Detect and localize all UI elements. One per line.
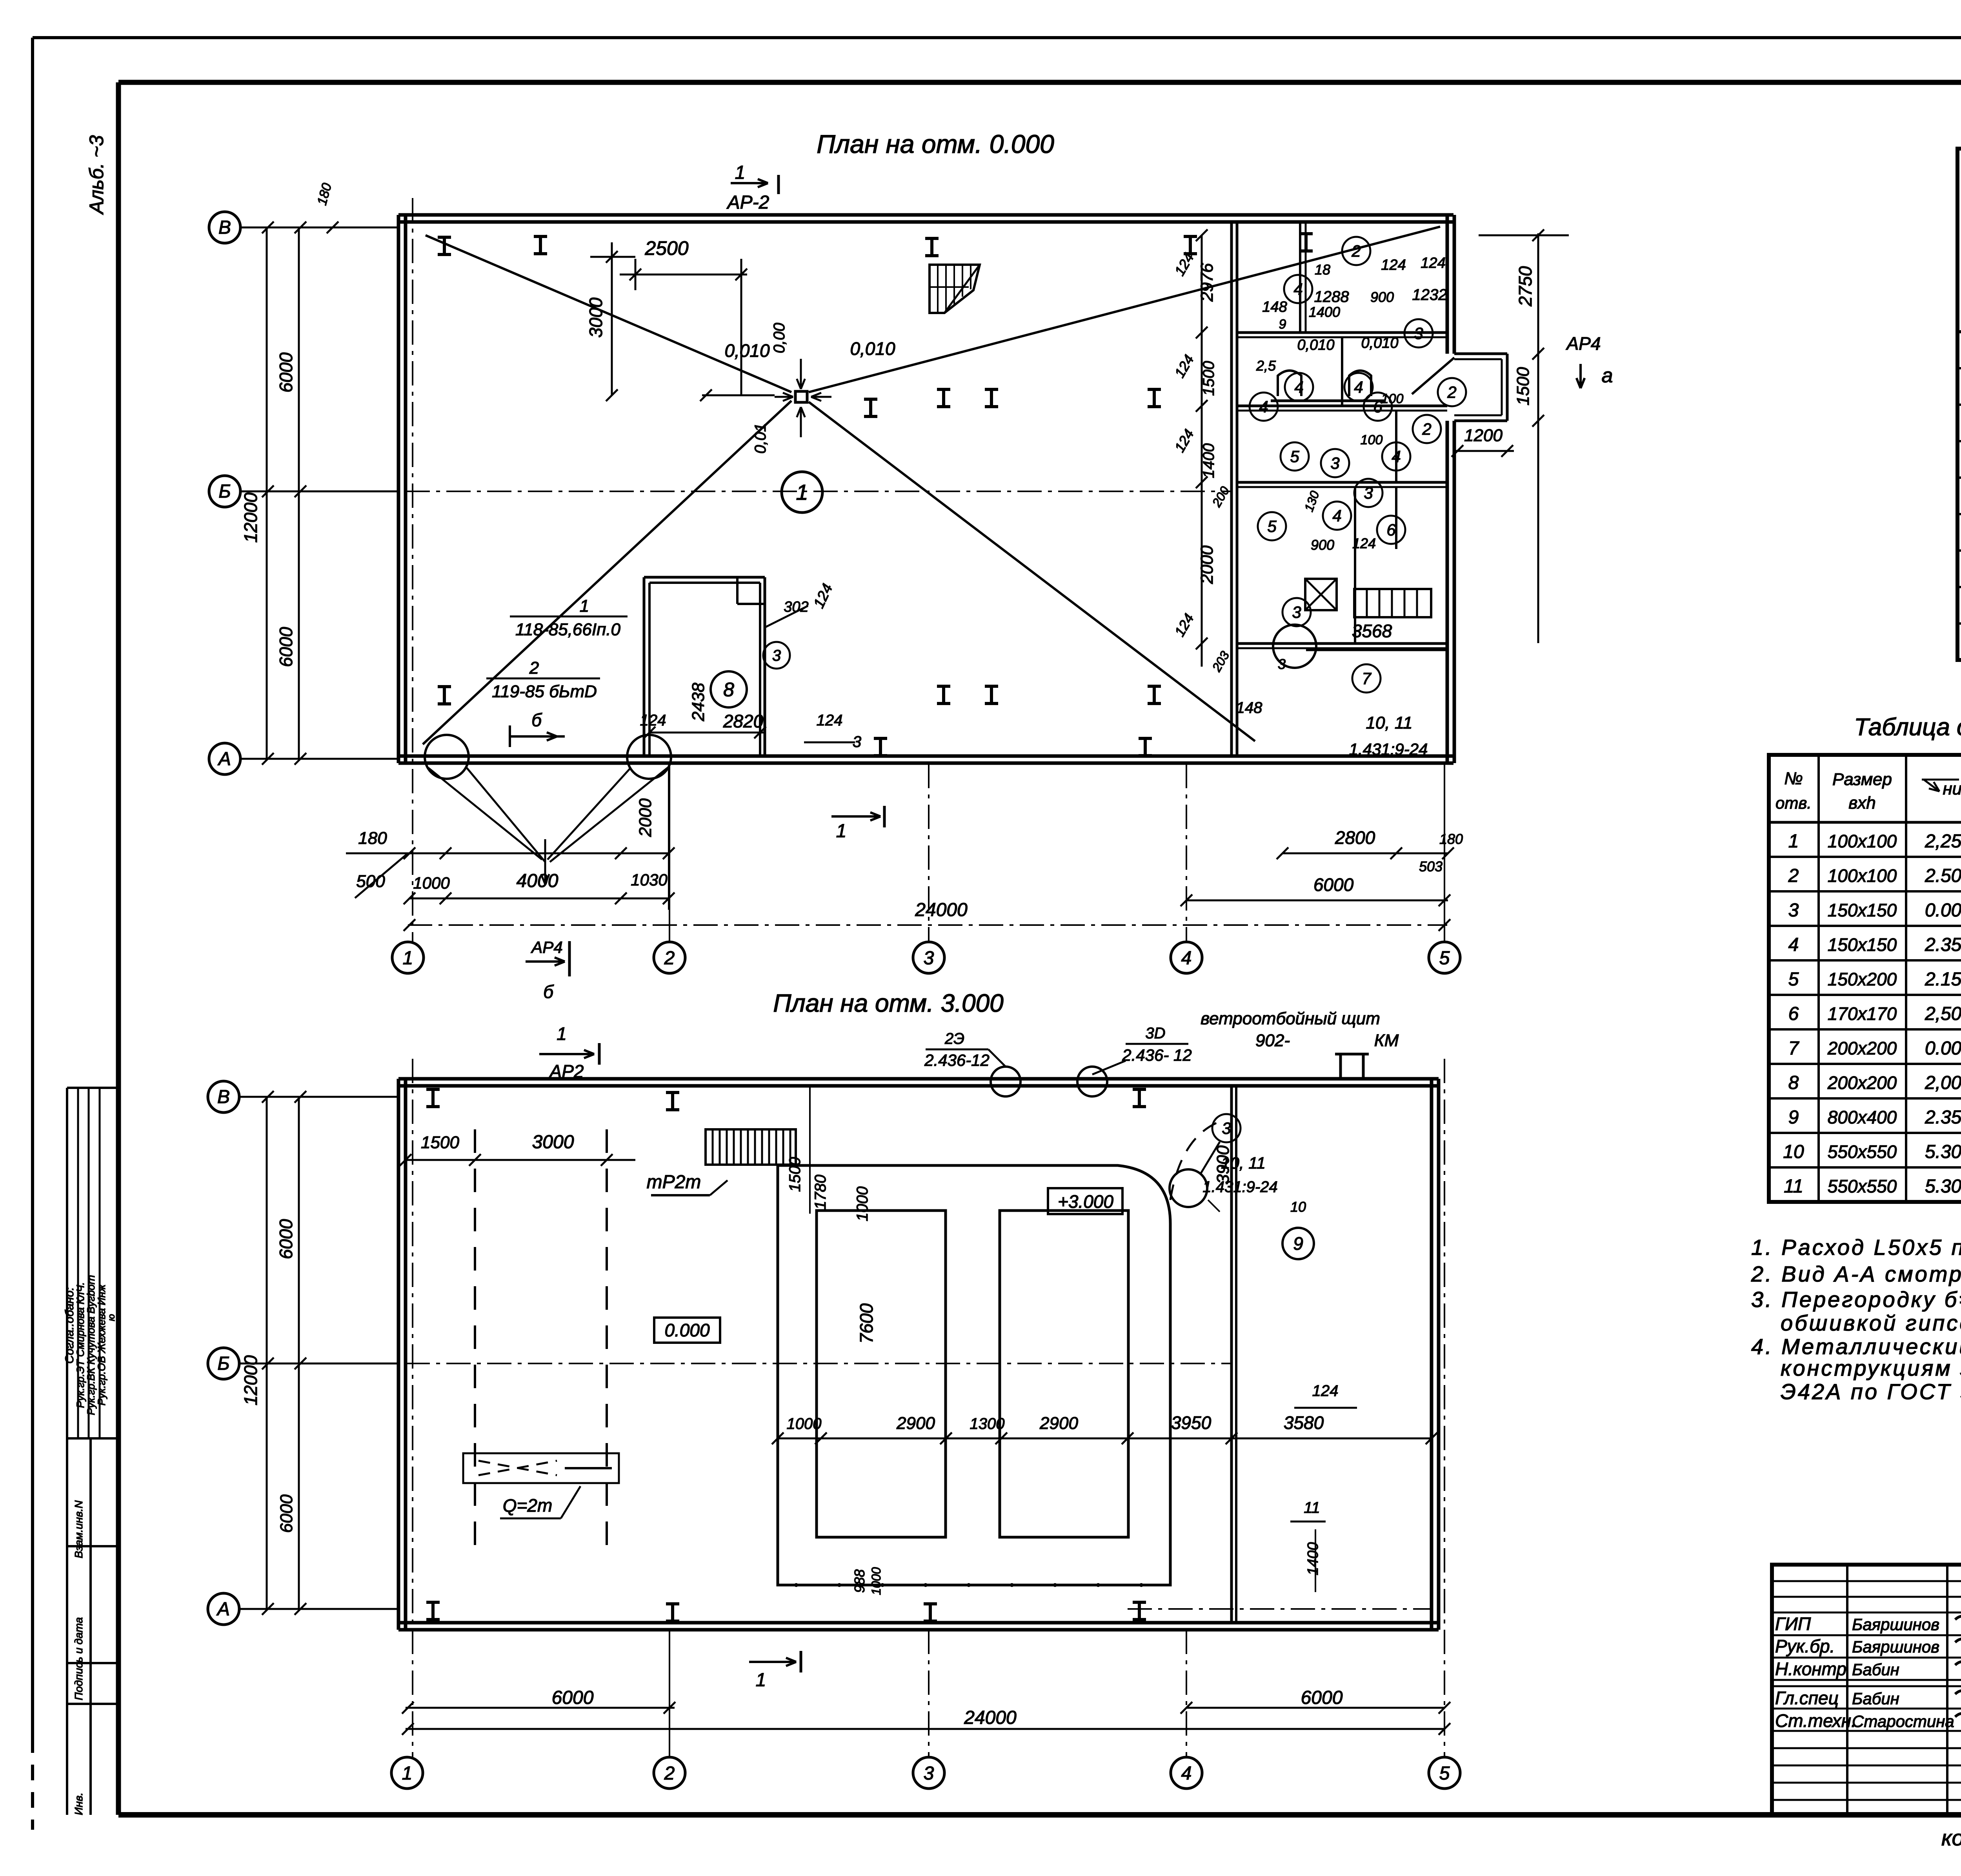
svg-text:100х100: 100х100 [1828, 831, 1897, 851]
svg-text:А: А [217, 749, 231, 769]
svg-text:ГИП: ГИП [1775, 1614, 1811, 1634]
svg-text:1500: 1500 [421, 1133, 459, 1152]
svg-text:Рук.гр.ЭТ Смирнова КлЧ.: Рук.гр.ЭТ Смирнова КлЧ. [75, 1282, 86, 1408]
svg-text:2,5: 2,5 [1256, 358, 1276, 374]
svg-text:2: 2 [664, 948, 675, 969]
svg-text:5.300: 5.300 [1925, 1176, 1961, 1197]
svg-text:10, 11: 10, 11 [1221, 1154, 1266, 1172]
svg-text:550х550: 550х550 [1828, 1176, 1897, 1196]
svg-text:5: 5 [1290, 447, 1299, 466]
svg-text:1. Расход L50х5 по ГОСТ 8509: 1. Расход L50х5 по ГОСТ 8509-86 - 3,50 м… [1751, 1235, 1961, 1260]
svg-text:1780: 1780 [812, 1175, 829, 1210]
svg-text:А: А [216, 1599, 230, 1620]
svg-text:2800: 2800 [1335, 827, 1375, 848]
svg-text:+3.000: +3.000 [1058, 1191, 1113, 1212]
svg-text:550х550: 550х550 [1828, 1142, 1897, 1162]
svg-text:100х100: 100х100 [1828, 865, 1897, 886]
svg-text:12000: 12000 [240, 1355, 261, 1405]
svg-text:118-85,66Iп.0: 118-85,66Iп.0 [515, 620, 621, 639]
svg-text:6000: 6000 [1313, 874, 1354, 895]
svg-text:1200: 1200 [1464, 426, 1503, 445]
svg-text:Инв.: Инв. [73, 1792, 85, 1815]
svg-text:3000: 3000 [586, 297, 606, 338]
svg-text:2000: 2000 [636, 798, 655, 837]
svg-text:1: 1 [403, 948, 413, 969]
svg-text:Подпись и дата: Подпись и дата [73, 1617, 85, 1700]
svg-text:вхh: вхh [1848, 793, 1876, 813]
svg-text:1: 1 [836, 821, 847, 842]
svg-text:Альб. ~3: Альб. ~3 [85, 135, 107, 215]
svg-text:а: а [1602, 364, 1613, 387]
svg-text:1.431:9-24: 1.431:9-24 [1349, 740, 1428, 758]
svg-text:1: 1 [402, 1763, 413, 1784]
svg-text:4: 4 [1259, 398, 1268, 416]
svg-text:3: 3 [1364, 484, 1373, 502]
svg-text:4. Металлический каркас пере: 4. Металлический каркас перегородок креп… [1751, 1334, 1961, 1359]
svg-text:124: 124 [1352, 535, 1376, 551]
svg-text:2,250: 2,250 [1925, 831, 1961, 852]
svg-text:900: 900 [1370, 289, 1394, 305]
svg-text:180: 180 [358, 829, 387, 848]
svg-text:124: 124 [1312, 1382, 1339, 1400]
svg-text:4: 4 [1293, 280, 1302, 298]
svg-text:0,01: 0,01 [752, 423, 769, 454]
svg-text:Q=2т: Q=2т [503, 1495, 553, 1516]
svg-text:4: 4 [1788, 934, 1799, 955]
svg-text:б: б [543, 982, 554, 1002]
svg-text:11: 11 [1304, 1499, 1320, 1516]
svg-text:200х200: 200х200 [1827, 1073, 1897, 1093]
svg-text:1400: 1400 [1305, 1542, 1321, 1576]
svg-text:24000: 24000 [964, 1707, 1017, 1728]
svg-text:2.436-12: 2.436-12 [924, 1051, 990, 1069]
svg-text:4: 4 [1181, 948, 1192, 969]
svg-text:1: 1 [557, 1023, 567, 1044]
svg-text:1.431:9-24: 1.431:9-24 [1202, 1178, 1277, 1196]
svg-text:План на отм. 3.000: План на отм. 3.000 [773, 989, 1004, 1017]
svg-text:1000: 1000 [869, 1567, 883, 1595]
svg-text:6000: 6000 [276, 352, 296, 393]
svg-text:4: 4 [1392, 447, 1401, 466]
svg-text:В: В [217, 1087, 230, 1107]
svg-text:Баяршинов: Баяршинов [1852, 1615, 1939, 1634]
svg-text:6: 6 [1788, 1003, 1799, 1024]
svg-text:Н.контр: Н.контр [1775, 1659, 1846, 1679]
svg-text:124: 124 [1421, 255, 1445, 271]
svg-text:6000: 6000 [552, 1687, 594, 1708]
svg-text:Баяршинов: Баяршинов [1852, 1638, 1939, 1656]
svg-text:2900: 2900 [1039, 1414, 1078, 1433]
svg-text:1500: 1500 [1513, 367, 1533, 405]
svg-text:2: 2 [1422, 420, 1431, 438]
svg-text:10, 11: 10, 11 [1366, 713, 1412, 733]
svg-text:150х150: 150х150 [1828, 900, 1897, 920]
svg-text:6: 6 [1386, 521, 1396, 539]
svg-text:2: 2 [1447, 383, 1456, 402]
svg-text:3: 3 [772, 647, 781, 664]
svg-text:Рук.гр.ВК Кучутова Вугborn: Рук.гр.ВК Кучутова Вугborn [85, 1275, 97, 1415]
svg-text:1: 1 [580, 596, 589, 616]
svg-text:3D: 3D [1145, 1025, 1165, 1042]
svg-text:24000: 24000 [915, 900, 968, 920]
svg-text:Гл.спец: Гл.спец [1775, 1688, 1839, 1708]
svg-text:3: 3 [924, 1763, 934, 1784]
svg-text:119-85 бЬтD: 119-85 бЬтD [492, 682, 597, 701]
svg-text:0,010: 0,010 [1297, 337, 1334, 353]
svg-text:Бабин: Бабин [1852, 1689, 1899, 1708]
svg-text:2820: 2820 [723, 711, 764, 731]
svg-text:2976: 2976 [1197, 263, 1217, 302]
svg-text:0.000: 0.000 [664, 1320, 710, 1340]
svg-text:8: 8 [723, 679, 734, 701]
svg-text:5: 5 [1439, 1763, 1450, 1784]
svg-text:7: 7 [1362, 669, 1372, 688]
svg-text:2.350: 2.350 [1925, 934, 1961, 955]
svg-text:1: 1 [735, 162, 746, 183]
svg-text:902-: 902- [1255, 1031, 1290, 1050]
svg-text:КМ: КМ [1374, 1031, 1399, 1050]
svg-text:6000: 6000 [276, 1219, 296, 1259]
svg-text:148: 148 [1236, 699, 1262, 716]
svg-text:Рук.бр.: Рук.бр. [1775, 1636, 1835, 1656]
svg-text:2000: 2000 [1197, 545, 1217, 584]
svg-text:1300: 1300 [970, 1415, 1005, 1432]
svg-text:0,010: 0,010 [850, 338, 895, 359]
svg-text:низа: низа [1943, 779, 1961, 798]
svg-text:0.000: 0.000 [1925, 1038, 1961, 1059]
svg-text:5.300: 5.300 [1925, 1142, 1961, 1162]
svg-text:обшивкой гипсокартонными лис: обшивкой гипсокартонными листами с двух … [1781, 1311, 1961, 1335]
svg-text:2Э: 2Э [944, 1030, 964, 1047]
svg-text:170х170: 170х170 [1828, 1003, 1897, 1024]
svg-text:ветроотбойный щит: ветроотбойный щит [1201, 1009, 1380, 1028]
svg-text:Взам.инв.N: Взам.инв.N [73, 1500, 85, 1558]
svg-text:124: 124 [640, 712, 666, 729]
svg-text:Бабин: Бабин [1852, 1660, 1899, 1679]
svg-text:503: 503 [1419, 858, 1443, 874]
svg-text:3580: 3580 [1284, 1412, 1324, 1433]
svg-text:0,00: 0,00 [771, 323, 788, 353]
svg-text:В: В [218, 217, 231, 238]
svg-text:Рук.гр.ОВ Жехжева Инж: Рук.гр.ОВ Жехжева Инж [96, 1284, 107, 1405]
svg-text:отв.: отв. [1775, 794, 1812, 812]
svg-text:8: 8 [1788, 1073, 1799, 1093]
svg-text:124: 124 [817, 712, 843, 729]
svg-text:3950: 3950 [1171, 1412, 1212, 1433]
svg-text:Б: Б [217, 1353, 229, 1374]
svg-text:2.436- 12: 2.436- 12 [1122, 1046, 1192, 1064]
svg-text:988: 988 [851, 1569, 868, 1593]
svg-text:2,000: 2,000 [1925, 1073, 1961, 1093]
svg-text:0.000: 0.000 [1925, 900, 1961, 921]
svg-text:3: 3 [1788, 900, 1799, 921]
svg-text:2438: 2438 [689, 683, 708, 722]
svg-text:2: 2 [1351, 242, 1361, 260]
svg-text:9: 9 [1788, 1107, 1799, 1128]
svg-text:6000: 6000 [277, 1494, 296, 1533]
svg-text:4: 4 [1332, 507, 1341, 525]
svg-text:1500: 1500 [786, 1157, 804, 1192]
svg-text:6000: 6000 [276, 627, 296, 667]
svg-text:План на отм. 0.000: План на отм. 0.000 [817, 129, 1054, 158]
svg-text:ю: ю [106, 1314, 117, 1321]
svg-text:б: б [531, 710, 542, 730]
svg-text:500: 500 [356, 872, 385, 891]
svg-text:№: № [1784, 769, 1803, 788]
svg-text:900: 900 [1311, 537, 1334, 553]
svg-text:Таблица отверстий: Таблица отверстий [1854, 714, 1961, 741]
svg-text:копировал Лифт: копировал Лифт [1941, 1825, 1961, 1850]
svg-text:Размер: Размер [1832, 770, 1892, 789]
svg-text:7: 7 [1788, 1038, 1800, 1059]
svg-text:2900: 2900 [896, 1414, 935, 1433]
svg-text:7600: 7600 [856, 1303, 877, 1343]
svg-text:3568: 3568 [1352, 621, 1392, 641]
svg-text:3000: 3000 [532, 1132, 574, 1153]
svg-text:1400: 1400 [1200, 444, 1217, 478]
svg-text:тР2т: тР2т [647, 1172, 701, 1192]
svg-text:3. Перегородку б=148мм на: 3. Перегородку б=148мм на отм. 0,000 вып… [1751, 1287, 1961, 1312]
svg-text:3: 3 [1330, 454, 1339, 473]
svg-text:9: 9 [1279, 317, 1286, 332]
svg-text:2.350: 2.350 [1925, 1107, 1961, 1128]
svg-text:150х200: 150х200 [1828, 969, 1897, 989]
svg-text:1000: 1000 [787, 1415, 822, 1432]
svg-text:2,500: 2,500 [1925, 1003, 1961, 1024]
svg-text:800х400: 800х400 [1828, 1107, 1897, 1127]
svg-text:1030: 1030 [631, 871, 668, 889]
svg-text:Старостина: Старостина [1852, 1712, 1954, 1731]
svg-text:3: 3 [1414, 324, 1423, 343]
svg-text:1000: 1000 [413, 874, 450, 892]
svg-text:3: 3 [924, 948, 934, 969]
svg-text:0,010: 0,010 [724, 340, 770, 361]
svg-text:5: 5 [1788, 969, 1799, 990]
svg-text:3: 3 [1292, 603, 1301, 622]
svg-text:конструкциям здания при помо: конструкциям здания при помощи сварки эл… [1781, 1356, 1961, 1380]
svg-text:1000: 1000 [854, 1187, 871, 1222]
svg-text:4000: 4000 [517, 871, 558, 891]
svg-text:1: 1 [796, 480, 808, 505]
svg-text:6000: 6000 [1301, 1687, 1343, 1708]
svg-text:2.500: 2.500 [1925, 865, 1961, 886]
svg-text:1500: 1500 [1200, 361, 1217, 396]
svg-text:5: 5 [1439, 948, 1450, 969]
svg-text:2: 2 [1788, 865, 1799, 886]
svg-text:124: 124 [1381, 257, 1406, 273]
svg-text:Б: Б [218, 481, 231, 502]
svg-text:АР-2: АР-2 [726, 192, 769, 213]
svg-text:2.150: 2.150 [1925, 969, 1961, 990]
svg-text:Ст.техн.: Ст.техн. [1775, 1711, 1856, 1731]
svg-text:АР4: АР4 [1566, 333, 1601, 354]
svg-text:1232: 1232 [1412, 286, 1447, 304]
svg-text:200х200: 200х200 [1827, 1038, 1897, 1058]
svg-text:4: 4 [1181, 1763, 1192, 1784]
svg-text:18: 18 [1315, 262, 1330, 278]
svg-text:1288: 1288 [1314, 288, 1350, 305]
svg-text:2: 2 [529, 658, 539, 678]
svg-text:9: 9 [1293, 1233, 1303, 1254]
svg-text:2500: 2500 [644, 237, 688, 259]
svg-text:180: 180 [1439, 831, 1463, 847]
svg-text:1: 1 [756, 1670, 766, 1691]
svg-text:10: 10 [1290, 1199, 1306, 1215]
svg-text:1400: 1400 [1309, 304, 1340, 320]
svg-text:2: 2 [664, 1763, 675, 1784]
svg-text:3: 3 [1222, 1119, 1231, 1138]
svg-text:АР4: АР4 [530, 938, 562, 956]
svg-text:100: 100 [1361, 433, 1383, 447]
svg-text:0,010: 0,010 [1361, 335, 1398, 351]
svg-text:1: 1 [1788, 831, 1799, 852]
svg-text:4: 4 [1354, 378, 1363, 396]
svg-text:5: 5 [1267, 517, 1277, 536]
svg-text:2. Вид А-А смотреть на лист: 2. Вид А-А смотреть на листе АР-2 [1751, 1262, 1961, 1286]
svg-text:148: 148 [1262, 299, 1287, 315]
svg-text:11: 11 [1784, 1176, 1803, 1197]
svg-text:Э42А по ГОСТ 9467-75.: Э42А по ГОСТ 9467-75. [1781, 1379, 1961, 1404]
svg-text:10: 10 [1783, 1142, 1804, 1162]
svg-text:2750: 2750 [1515, 266, 1535, 307]
svg-text:12000: 12000 [240, 493, 261, 543]
svg-text:150х150: 150х150 [1828, 934, 1897, 955]
